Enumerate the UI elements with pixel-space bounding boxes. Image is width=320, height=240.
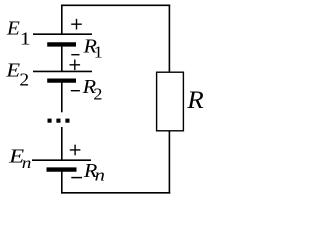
polarity minus of E2 <box>71 90 80 92</box>
polarity minus of En <box>71 177 82 179</box>
polarity minus of E1 <box>71 54 79 56</box>
wire right vertical upper segment <box>168 5 170 73</box>
svg-text:n: n <box>22 154 32 172</box>
svg-text:2: 2 <box>93 85 102 103</box>
battery E2 <box>33 71 92 80</box>
label R2 <box>82 75 103 103</box>
polarity plus of E1 <box>71 19 82 30</box>
label Rn <box>83 159 105 185</box>
wire left vertical: En to bottom rail <box>61 171 63 193</box>
svg-text:R: R <box>186 86 204 114</box>
battery E1 <box>33 34 92 44</box>
resistor R <box>157 72 184 131</box>
label E2 <box>5 59 29 91</box>
wire left vertical: E1 to E2 <box>61 47 63 72</box>
wire bottom rail <box>61 192 170 194</box>
svg-text:E: E <box>5 59 20 82</box>
label En <box>8 144 31 171</box>
polarity plus of En <box>70 145 81 156</box>
svg-text:2: 2 <box>19 70 29 90</box>
wire left vertical: E2 down to ellipsis gap <box>61 83 63 113</box>
wire left vertical: top rail to battery E1 <box>61 5 63 35</box>
wire right vertical lower segment <box>168 131 170 194</box>
svg-text:1: 1 <box>20 29 31 48</box>
wire top rail <box>61 4 170 6</box>
svg-text:1: 1 <box>94 43 103 61</box>
battery En <box>32 160 91 169</box>
wire left vertical: ellipsis gap to battery En <box>61 127 63 160</box>
label E1 <box>6 18 31 49</box>
ellipsis dots <box>48 119 70 123</box>
polarity plus of E2 <box>70 60 81 71</box>
svg-text:n: n <box>95 166 105 185</box>
svg-text:E: E <box>6 18 20 39</box>
label R1 <box>82 34 102 61</box>
